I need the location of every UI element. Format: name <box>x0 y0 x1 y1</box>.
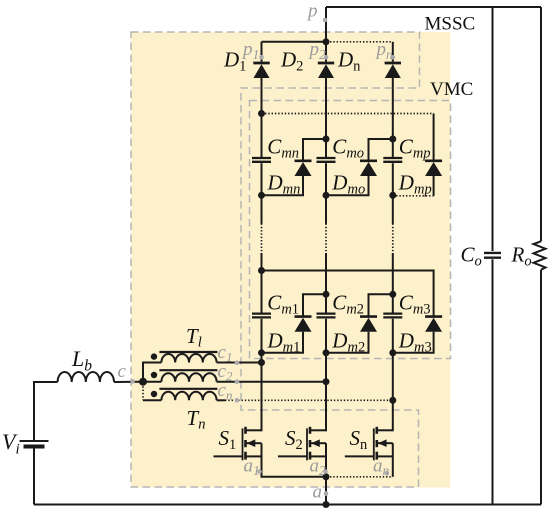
wire top header to D1 column <box>262 41 327 43</box>
wire winding Tn stub <box>143 399 161 401</box>
capacitor Co <box>484 253 501 258</box>
MSSC region dashed border <box>131 32 420 487</box>
wire column 3 above row 2 <box>392 253 394 313</box>
svg-text:Lb: Lb <box>71 346 92 375</box>
wire dotted winding Tn output to column 3 (node cn) <box>225 399 393 401</box>
node c2 marker <box>235 379 240 384</box>
wire Ro branch lower <box>540 270 542 505</box>
transformer T1 winding <box>161 354 216 363</box>
junction node cn at column 3 <box>389 397 396 404</box>
wire column 2 below Cm2 <box>325 319 327 432</box>
diode Dmp <box>425 161 442 176</box>
diode Dm2 <box>360 317 377 332</box>
junction column 3 at Dm2 link <box>389 291 396 298</box>
switch S1 (MOSFET) <box>214 427 262 461</box>
transformer Tn winding <box>161 392 216 401</box>
wire column 1 below Cm1 <box>261 319 263 432</box>
wire dotted node a2 to Sn source <box>330 476 393 478</box>
svg-text:p: p <box>306 1 318 22</box>
svg-text:VMC: VMC <box>430 79 473 100</box>
wire node p vertical into MSSC <box>325 7 327 42</box>
junction column 2 row-2 bottom <box>323 349 330 356</box>
wire Dmo anode to column 2 junction <box>326 176 369 195</box>
node an marker <box>385 471 390 476</box>
transformer Tn polarity dot <box>151 391 157 397</box>
capacitor Cmn <box>252 158 271 162</box>
junction column 3 row-1 bottom <box>389 192 396 199</box>
transformer T1 core bar <box>159 351 217 353</box>
wire dotted column 1 continuation <box>261 224 263 254</box>
diode Dmn <box>295 161 312 176</box>
wire Dm1 top link to column 2 <box>303 294 326 316</box>
wire column 2 below Cmo <box>325 163 327 223</box>
wire Dmn top link to column 2 <box>303 139 326 161</box>
node a1 marker <box>257 469 262 474</box>
transformer T2 core bar <box>159 369 217 371</box>
wire Sn source down <box>392 443 394 477</box>
wire Dm2 top link to column 3 <box>369 294 393 316</box>
wire column 2 from D2 cathode to Cmo <box>325 78 327 157</box>
diode Dm1 <box>295 317 312 332</box>
wire dotted column 3 continuation <box>392 224 394 254</box>
diode Dm3 <box>425 317 442 332</box>
wire winding T1 output to column 1 (node c1) <box>217 362 262 364</box>
junction column 1 row-2 bottom <box>258 349 265 356</box>
diode Dn <box>385 63 401 78</box>
junction node c1 at column 1 <box>258 359 265 366</box>
svg-text:Co: Co <box>461 243 482 270</box>
capacitor Cm3 <box>383 314 402 318</box>
junction node c <box>139 378 147 386</box>
junction column 1 row-1 header <box>258 110 265 117</box>
diode D1 <box>253 63 269 78</box>
svg-text:c: c <box>118 361 127 382</box>
wire column 2 above row 2 <box>325 253 327 313</box>
wire Dmo top link to column 3 <box>369 139 393 161</box>
wire column 3 below Cm3 <box>392 319 394 432</box>
wire node c to winding T2 <box>143 381 161 383</box>
capacitor Cm2 <box>317 314 336 318</box>
junction column 1 row-1 bottom <box>258 192 265 199</box>
wire S2 source down <box>325 443 327 477</box>
resistor Ro <box>534 241 546 269</box>
wire S1 source to node a junction <box>262 443 327 477</box>
wire Lb to node c <box>114 381 143 383</box>
wire column 3 below Cmp <box>392 163 394 223</box>
svg-text:a: a <box>313 482 323 503</box>
capacitor Cmp <box>383 158 402 162</box>
node pn marker <box>391 55 396 60</box>
junction column 3 at Dmo link <box>389 136 396 143</box>
node a marker <box>324 491 329 496</box>
inductor Lb <box>58 372 114 382</box>
wire dotted node c to winding Tn <box>142 383 144 400</box>
transformer T2 polarity dot <box>151 372 157 378</box>
wire dotted header p2 to pn <box>330 41 393 43</box>
switch S2 (MOSFET) <box>278 427 326 461</box>
wire Dmp anode lead <box>433 176 435 196</box>
wire column 1 from D1 cathode to Cmn <box>261 78 263 157</box>
wire column p1 above diode D1 <box>261 42 263 62</box>
wire winding Tn output stub <box>217 399 225 401</box>
wire bottom rail <box>34 504 541 506</box>
wire column p2 above diode D2 <box>325 42 327 62</box>
VMC region dashed border <box>250 101 451 359</box>
junction node a bottom rail <box>323 501 330 508</box>
diode Dmo <box>360 161 377 176</box>
wire battery negative to bottom rail <box>33 449 35 505</box>
junction column 2 at Dm1 link <box>323 291 330 298</box>
wire Dm3 anode to column 3 junction <box>393 332 434 353</box>
svg-text:Vi: Vi <box>2 429 20 458</box>
junction at node p header <box>323 38 330 45</box>
node cn marker <box>235 398 240 403</box>
transformer T2 winding <box>161 373 216 382</box>
wire winding T2 output to column 2 (node c2) <box>217 381 326 383</box>
node p2 marker <box>324 55 329 60</box>
junction node c2 at column 2 <box>323 378 330 385</box>
voltage source Vi <box>20 441 49 447</box>
wire Co branch upper <box>492 7 494 251</box>
junction node a sources <box>323 473 330 480</box>
node p1 marker <box>259 55 264 60</box>
wire dotted Dmp anode return to column 3 <box>393 195 434 197</box>
junction column 2 at Dmn link <box>323 136 330 143</box>
wire input source to Lb <box>34 382 58 440</box>
wire column 1 below Cmn <box>261 163 263 223</box>
wire column 1 above row 2 <box>261 253 263 313</box>
node c marker <box>130 379 135 384</box>
switch Sn (MOSFET) <box>345 427 393 461</box>
wire node c riser to winding T1 <box>143 363 161 382</box>
svg-text:Ro: Ro <box>511 243 532 270</box>
junction column 3 row-2 bottom <box>389 349 396 356</box>
junction column 1 row-2 header <box>258 267 265 274</box>
wire dotted column 2 continuation <box>325 224 327 254</box>
transformer Tn core bar <box>159 388 217 390</box>
diode D2 <box>318 63 334 78</box>
wire column 4 from dotted header to Dmp <box>433 114 435 161</box>
wire Co branch lower <box>492 259 494 504</box>
svg-text:MSSC: MSSC <box>425 14 476 35</box>
capacitor Cm1 <box>252 314 271 318</box>
capacitor Cmo <box>317 158 336 162</box>
wire column 3 from Dn cathode to Cmp <box>392 78 394 157</box>
junction column 2 row-1 bottom <box>323 192 330 199</box>
MSSC converter region fill <box>131 32 450 488</box>
node p marker <box>323 18 328 23</box>
node a2 marker <box>323 469 328 474</box>
wire Ro branch upper <box>540 7 542 241</box>
wire dotted VMC row 1 header <box>265 113 434 115</box>
node c1 marker <box>235 360 240 365</box>
wire Dmn anode to column 1 junction <box>262 176 304 195</box>
transformer T1 polarity dot <box>151 353 157 359</box>
wire node a to bottom rail <box>325 477 327 505</box>
wire top rail from node p to output branch <box>326 6 541 8</box>
wire Dm1 anode to column 1 junction <box>262 332 304 353</box>
wire row 2 header to Dm3 branch <box>262 271 434 317</box>
wire column pn above diode Dn <box>392 42 394 62</box>
wire Dm2 anode to column 2 junction <box>326 332 369 353</box>
